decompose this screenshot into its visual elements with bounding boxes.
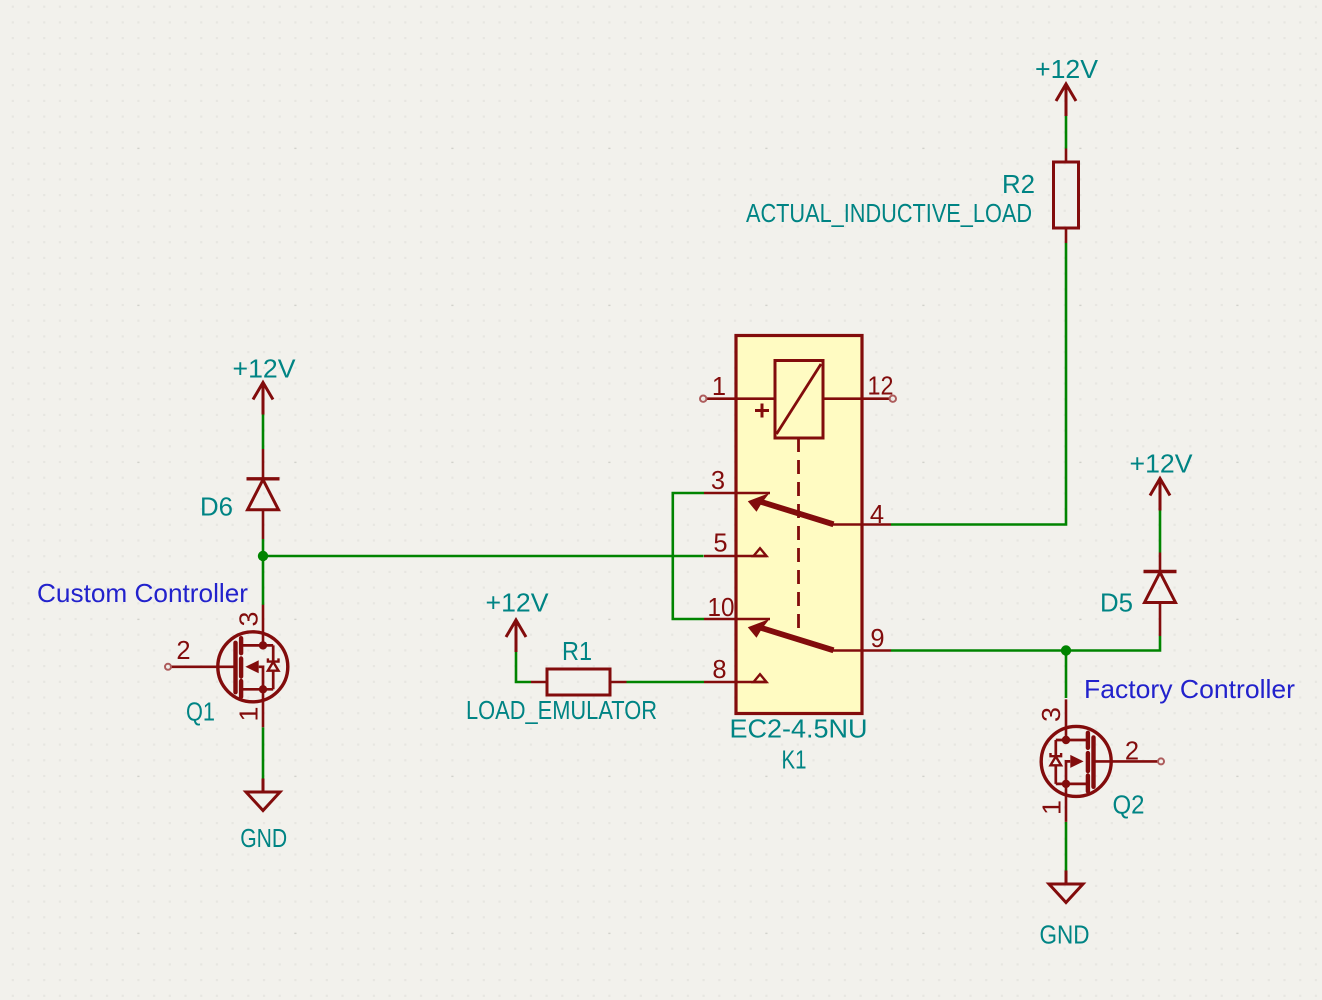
svg-text:2: 2 — [176, 637, 190, 665]
svg-text:EC2-4.5NU: EC2-4.5NU — [730, 714, 868, 744]
svg-text:R2: R2 — [1002, 169, 1035, 199]
svg-text:GND: GND — [240, 823, 287, 853]
svg-text:Factory Controller: Factory Controller — [1084, 674, 1295, 704]
svg-text:D6: D6 — [200, 492, 233, 522]
svg-text:Q2: Q2 — [1113, 790, 1145, 820]
svg-text:GND: GND — [1040, 920, 1090, 950]
svg-text:LOAD_EMULATOR: LOAD_EMULATOR — [466, 695, 657, 725]
svg-text:8: 8 — [712, 656, 726, 684]
svg-text:3: 3 — [236, 612, 264, 627]
svg-text:Q1: Q1 — [186, 697, 215, 727]
svg-text:+12V: +12V — [486, 588, 550, 618]
svg-text:10: 10 — [708, 594, 735, 622]
svg-text:1: 1 — [1039, 800, 1067, 815]
svg-text:3: 3 — [1038, 707, 1066, 722]
svg-text:1: 1 — [712, 373, 726, 401]
svg-text:+12V: +12V — [233, 354, 297, 384]
svg-text:9: 9 — [870, 625, 884, 653]
svg-text:+12V: +12V — [1130, 449, 1194, 479]
svg-text:4: 4 — [870, 501, 884, 529]
svg-text:+12V: +12V — [1035, 54, 1099, 84]
svg-text:K1: K1 — [782, 745, 807, 775]
svg-text:5: 5 — [713, 530, 727, 558]
svg-text:ACTUAL_INDUCTIVE_LOAD: ACTUAL_INDUCTIVE_LOAD — [746, 198, 1032, 228]
svg-text:Custom Controller: Custom Controller — [37, 578, 248, 608]
svg-text:12: 12 — [868, 373, 894, 401]
svg-text:2: 2 — [1125, 738, 1139, 766]
svg-text:D5: D5 — [1100, 588, 1133, 618]
svg-text:1: 1 — [236, 707, 264, 722]
svg-text:3: 3 — [711, 467, 725, 495]
svg-text:R1: R1 — [562, 636, 592, 666]
